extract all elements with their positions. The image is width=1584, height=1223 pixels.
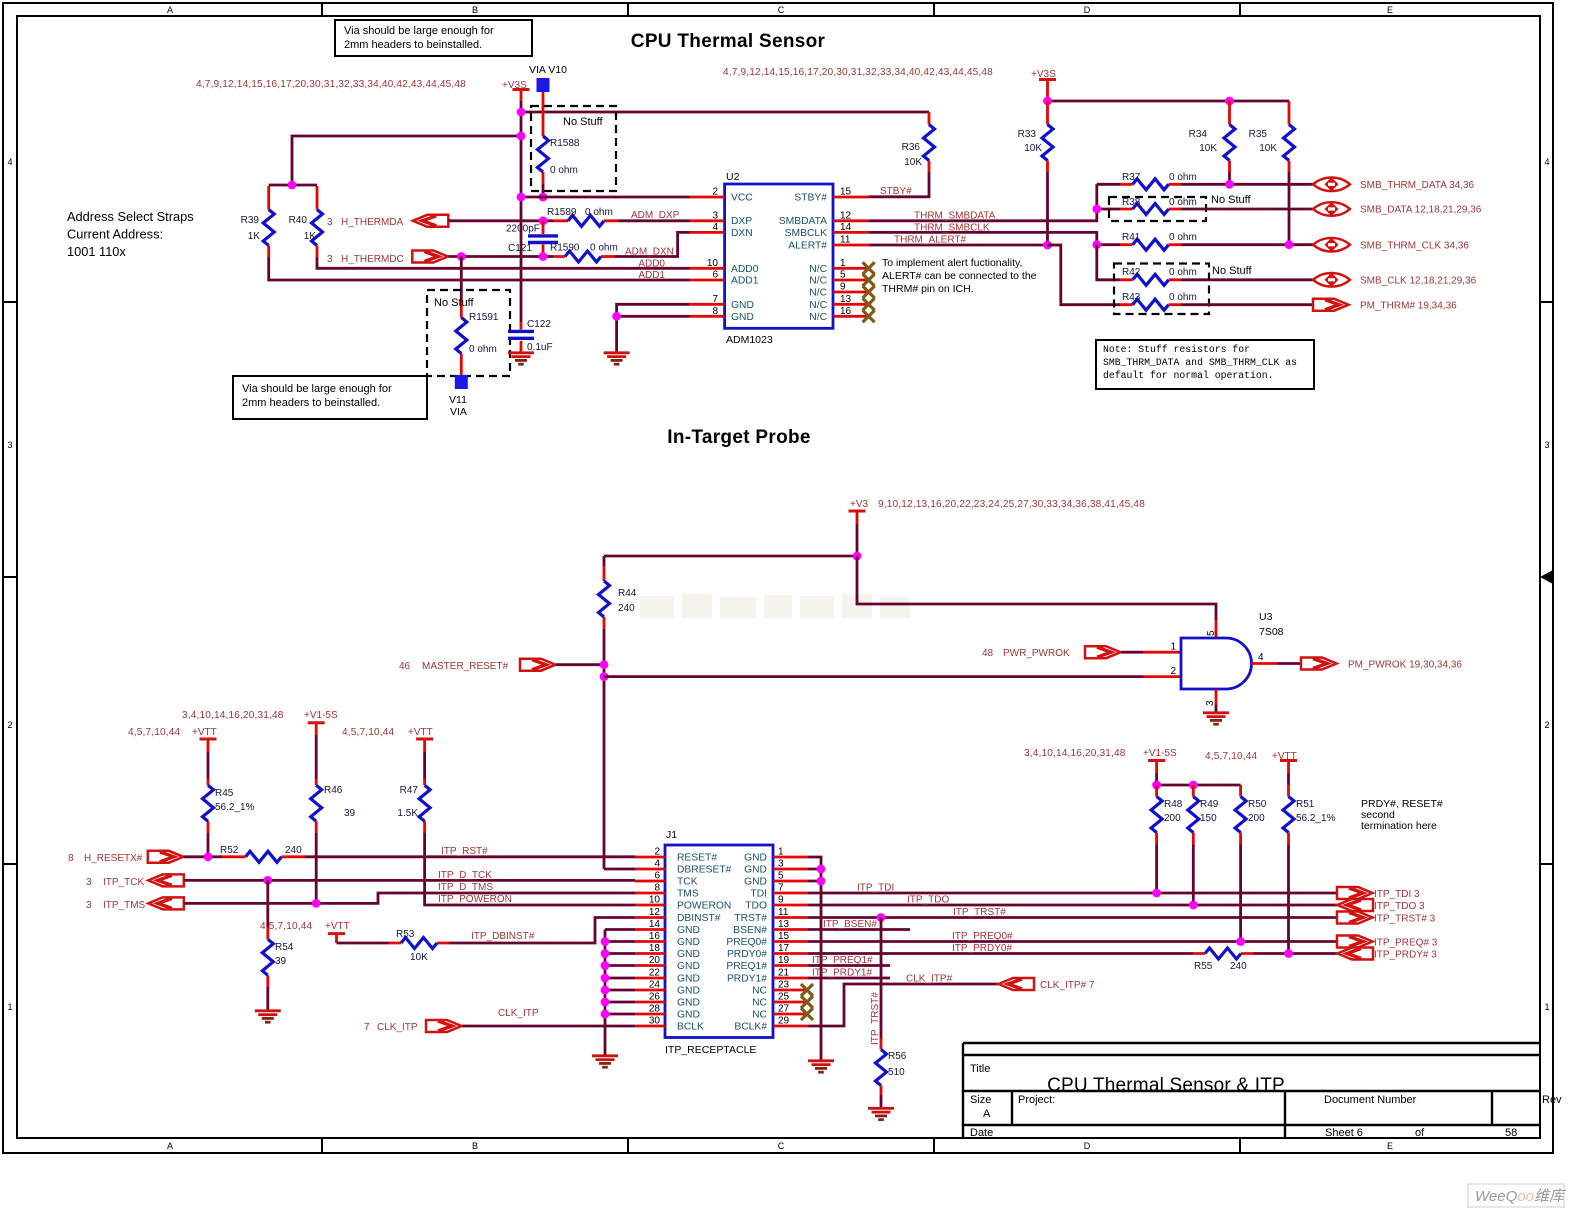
wire PM_PWROK [1277, 662, 1301, 665]
svg-text:10: 10 [707, 258, 719, 269]
resistor R34 10K [1189, 101, 1235, 184]
svg-text:0 ohm: 0 ohm [590, 243, 618, 254]
via V11 [449, 375, 468, 418]
wire THRM_ALERT# net [869, 244, 1061, 247]
wire ALERT to PM_THRM [1048, 245, 1121, 305]
svg-text:ALERT#: ALERT# [788, 240, 827, 251]
node PWR_PWROK [982, 646, 1121, 659]
svg-text:+V1-5S: +V1-5S [304, 710, 338, 721]
svg-text:C122: C122 [527, 319, 551, 330]
node CLK_ITP [364, 1020, 462, 1033]
svg-text:2: 2 [1170, 666, 1176, 677]
svg-text:ITP_TDO: ITP_TDO [907, 895, 949, 906]
svg-text:ITP_POWERON: ITP_POWERON [438, 894, 512, 905]
svg-text:14: 14 [649, 919, 661, 930]
svg-text:4,7,9,12,14,15,16,17,20,30,31,: 4,7,9,12,14,15,16,17,20,30,31,32,33,34,4… [723, 67, 993, 78]
resistor R35 10K [1249, 101, 1295, 245]
svg-text:5: 5 [1206, 630, 1217, 636]
svg-text:ITP_TRST#: ITP_TRST# [953, 907, 1006, 918]
svg-text:56.2_1%: 56.2_1% [215, 802, 255, 813]
ground under C122 [508, 353, 534, 364]
wire +V3 to U3 pin5 [857, 556, 1216, 620]
wire VCC net [521, 196, 690, 199]
svg-text:R52: R52 [220, 845, 239, 856]
svg-text:ADD1: ADD1 [638, 270, 665, 281]
svg-text:BCLK#: BCLK# [734, 1022, 767, 1033]
svg-text:E: E [1387, 1141, 1393, 1151]
svg-text:PRDY0#: PRDY0# [727, 949, 767, 960]
svg-text:26: 26 [649, 992, 661, 1003]
svg-text:1K: 1K [248, 231, 261, 242]
svg-text:SMB_CLK 12,18,21,29,36: SMB_CLK 12,18,21,29,36 [1360, 276, 1477, 287]
svg-text:Document Number: Document Number [1324, 1094, 1417, 1106]
svg-text:R54: R54 [275, 942, 294, 953]
svg-text:2200pF: 2200pF [506, 224, 540, 235]
svg-text:R1588: R1588 [550, 138, 580, 149]
wire ITP_PRDY0# + resistor R55 240 [808, 948, 1337, 972]
svg-text:48: 48 [982, 648, 994, 659]
resistor R43 0 ohm (no stuff) [1120, 292, 1197, 310]
svg-text:+VTT: +VTT [325, 921, 350, 932]
svg-text:6: 6 [712, 270, 718, 281]
svg-text:termination here: termination here [1361, 820, 1437, 832]
svg-text:SMB_THRM_DATA and SMB_THRM_CLK: SMB_THRM_DATA and SMB_THRM_CLK as [1103, 357, 1297, 368]
wire R39 R40 top bar [269, 184, 317, 187]
svg-text:DBRESET#: DBRESET# [677, 865, 732, 876]
right border arrow [1540, 570, 1553, 584]
svg-text:ADD0: ADD0 [731, 264, 759, 275]
svg-text:200: 200 [1164, 813, 1181, 824]
svg-text:GND: GND [677, 949, 700, 960]
svg-text:DXP: DXP [731, 216, 752, 227]
svg-text:56.2_1%: 56.2_1% [1296, 813, 1336, 824]
svg-text:8: 8 [68, 853, 74, 864]
svg-text:GND: GND [731, 300, 754, 311]
wire ITP_PRDY1# net [808, 977, 890, 980]
svg-text:4,5,7,10,44: 4,5,7,10,44 [342, 727, 394, 738]
wire ITP_TDO net [808, 904, 1337, 907]
power +VTT (R45) [192, 727, 217, 779]
power +V3S left [502, 80, 530, 101]
svg-text:No Stuff: No Stuff [434, 297, 474, 309]
resistor R50 200 [1235, 785, 1267, 942]
wire R42 branch [1097, 245, 1120, 280]
svg-text:28: 28 [649, 1004, 661, 1015]
ground under U3 [1203, 713, 1229, 724]
svg-text:39: 39 [275, 956, 287, 967]
svg-text:22: 22 [649, 968, 661, 979]
svg-text:GND: GND [677, 998, 700, 1009]
svg-text:240: 240 [618, 603, 635, 614]
svg-text:default for normal operation.: default for normal operation. [1103, 370, 1274, 381]
resistor R51 56.2_1% [1283, 785, 1336, 954]
svg-text:R39: R39 [241, 215, 260, 226]
svg-text:3: 3 [327, 254, 333, 265]
svg-text:ITP_TMS: ITP_TMS [103, 900, 146, 911]
svg-text:THRM_SMBCLK: THRM_SMBCLK [914, 223, 990, 234]
svg-text:15: 15 [778, 931, 790, 942]
svg-text:150: 150 [1200, 813, 1217, 824]
svg-text:3: 3 [86, 900, 92, 911]
wire +V3 rail left [604, 555, 857, 558]
svg-text:VCC: VCC [731, 193, 753, 204]
node H_THERMDA [327, 215, 448, 228]
junction [517, 132, 526, 141]
svg-text:Date: Date [970, 1127, 993, 1139]
junctions J1 left GND bus [601, 937, 610, 1018]
svg-text:21: 21 [778, 968, 790, 979]
svg-text:No Stuff: No Stuff [1211, 194, 1251, 206]
watermark center faint [640, 594, 910, 618]
svg-text:R34: R34 [1189, 129, 1208, 140]
svg-text:GND: GND [677, 937, 700, 948]
svg-text:R38: R38 [1122, 197, 1141, 208]
svg-text:10K: 10K [1199, 143, 1217, 154]
wire ITP_TDI net [808, 892, 1337, 895]
svg-text:R51: R51 [1296, 799, 1315, 810]
svg-text:R36: R36 [902, 142, 921, 153]
svg-text:U3: U3 [1259, 611, 1273, 623]
svg-text:R50: R50 [1248, 799, 1267, 810]
resistor R47 1.5K [397, 779, 635, 905]
svg-text:B: B [472, 5, 478, 15]
svg-text:R43: R43 [1122, 292, 1141, 303]
power +VTT right [1272, 751, 1297, 785]
svg-text:DXN: DXN [731, 228, 753, 239]
svg-text:R40: R40 [289, 215, 308, 226]
svg-text:ITP_TRST# 3: ITP_TRST# 3 [1374, 914, 1436, 925]
svg-text:Size: Size [970, 1094, 991, 1106]
junction [1225, 97, 1234, 106]
svg-text:+V3: +V3 [850, 499, 869, 510]
junction [1043, 97, 1052, 106]
svg-text:2mm headers to beinstalled.: 2mm headers to beinstalled. [242, 397, 380, 409]
resistor R39 1K [241, 186, 275, 257]
node MASTER_RESET# [399, 659, 556, 672]
row ticks right [1540, 302, 1553, 864]
resistor R52 240 [220, 845, 305, 862]
svg-text:R42: R42 [1122, 267, 1141, 278]
resistor R48 200 [1151, 785, 1183, 893]
svg-text:8: 8 [654, 883, 660, 894]
svg-text:D: D [1084, 5, 1091, 15]
svg-text:C121: C121 [508, 243, 532, 254]
svg-text:DBINST#: DBINST# [677, 913, 721, 924]
svg-text:4,7,9,12,14,15,16,17,20,30,31,: 4,7,9,12,14,15,16,17,20,30,31,32,33,34,4… [196, 79, 466, 90]
svg-text:3: 3 [86, 877, 92, 888]
svg-text:TCK: TCK [677, 877, 698, 888]
svg-text:R33: R33 [1018, 129, 1037, 140]
power +V1-5S right [1143, 748, 1177, 785]
port PM_THRM# [1313, 299, 1349, 311]
svg-text:2: 2 [654, 847, 660, 858]
svg-text:STBY#: STBY# [794, 193, 827, 204]
junction [288, 181, 297, 190]
svg-text:NC: NC [752, 986, 767, 997]
svg-text:16: 16 [649, 931, 661, 942]
svg-text:1: 1 [840, 258, 846, 269]
svg-text:9: 9 [840, 282, 846, 293]
junction [263, 876, 272, 885]
svg-text:SMBDATA: SMBDATA [779, 216, 827, 227]
resistor R1591 0 ohm (no stuff) [456, 257, 499, 376]
svg-text:ITP_DBINST#: ITP_DBINST# [471, 931, 535, 942]
svg-text:R1590: R1590 [550, 243, 580, 254]
svg-text:ITP_D_TMS: ITP_D_TMS [438, 882, 493, 893]
svg-text:R49: R49 [1200, 799, 1219, 810]
J1 pin stubs left [635, 857, 665, 1026]
svg-text:+VTT: +VTT [408, 727, 433, 738]
port CLK_ITP# [999, 978, 1035, 990]
svg-text:25: 25 [778, 992, 790, 1003]
svg-text:7: 7 [778, 883, 784, 894]
junction [1225, 180, 1234, 189]
svg-text:TDO: TDO [745, 901, 767, 912]
port ITP_TDI [1337, 887, 1373, 899]
svg-text:ITP_TRST#: ITP_TRST# [870, 992, 881, 1045]
svg-text:ADM1023: ADM1023 [726, 334, 773, 346]
svg-text:10K: 10K [410, 952, 428, 963]
svg-text:ITP_RECEPTACLE: ITP_RECEPTACLE [665, 1044, 756, 1056]
svg-text:20: 20 [649, 955, 661, 966]
svg-text:Project:: Project: [1018, 1094, 1055, 1106]
svg-text:THRM_SMBDATA: THRM_SMBDATA [914, 211, 996, 222]
wire U2 GND pins to ground [617, 304, 690, 351]
svg-text:29: 29 [778, 1016, 790, 1027]
svg-text:0 ohm: 0 ohm [1169, 267, 1197, 278]
power +VTT (R47) [408, 727, 433, 779]
svg-text:23: 23 [778, 980, 790, 991]
svg-text:R45: R45 [215, 788, 234, 799]
svg-text:11: 11 [778, 907, 789, 918]
column ticks top [322, 3, 1240, 16]
svg-text:1K: 1K [304, 231, 317, 242]
svg-text:12: 12 [649, 907, 661, 918]
svg-text:ITP_TDO 3: ITP_TDO 3 [1374, 901, 1425, 912]
power +V3S right [1031, 69, 1056, 101]
resistor R33 10K [1018, 101, 1053, 245]
svg-text:30: 30 [649, 1016, 661, 1027]
svg-text:GND: GND [744, 853, 767, 864]
svg-text:Address Select Straps: Address Select Straps [67, 209, 194, 224]
svg-text:A: A [983, 1108, 991, 1120]
svg-text:ITP_TCK: ITP_TCK [103, 877, 144, 888]
svg-text:9: 9 [778, 895, 784, 906]
wire SMB_CLK net [1181, 278, 1313, 281]
svg-text:BCLK: BCLK [677, 1022, 704, 1033]
wire J1 right GND chain [808, 857, 821, 1060]
svg-text:E: E [1387, 5, 1393, 15]
svg-text:240: 240 [1230, 961, 1247, 972]
svg-text:3: 3 [7, 440, 12, 450]
svg-text:GND: GND [677, 974, 700, 985]
wire ADM_DXP to pin 3 [618, 219, 690, 222]
resistor R1589 0 ohm [547, 207, 618, 226]
U2 pin stubs left [690, 197, 725, 316]
wire ITP_TRST# net [808, 916, 1337, 919]
wire ITP_RST# net [305, 855, 635, 858]
svg-text:8: 8 [712, 306, 718, 317]
connector J1 ITP_RECEPTACLE [665, 829, 773, 1056]
wire to U3 pin 2 [604, 675, 1143, 678]
svg-text:PM_THRM# 19,34,36: PM_THRM# 19,34,36 [1360, 300, 1457, 311]
svg-text:39: 39 [344, 808, 356, 819]
power +VTT (R53) [325, 921, 350, 943]
svg-text:9,10,12,13,16,20,22,23,24,25,2: 9,10,12,13,16,20,22,23,24,25,27,30,33,34… [878, 499, 1145, 510]
wire THRM_SMBCLK net [869, 232, 1097, 244]
svg-text:CLK_ITP#: CLK_ITP# [906, 974, 953, 985]
row ticks left [3, 302, 17, 864]
resistor R1588 0 ohm (no stuff) [538, 92, 580, 197]
resistor R45 56.2_1% [203, 779, 255, 857]
wire +V3S rail [1048, 100, 1290, 103]
svg-text:PRDY1#: PRDY1# [727, 974, 767, 985]
wire ITP_D_TCK net [184, 879, 635, 882]
svg-text:R47: R47 [400, 785, 419, 796]
junction [853, 552, 862, 561]
svg-text:3: 3 [778, 859, 784, 870]
svg-text:ITP_RST#: ITP_RST# [441, 846, 488, 857]
svg-text:PM_PWROK 19,30,34,36: PM_PWROK 19,30,34,36 [1348, 660, 1462, 671]
svg-text:24: 24 [649, 980, 661, 991]
resistor R1590 0 ohm [550, 243, 618, 263]
svg-text:GND: GND [677, 961, 700, 972]
svg-text:ALERT# can be connected to the: ALERT# can be connected to the [882, 270, 1037, 282]
resistor R54 39 [262, 880, 293, 1009]
svg-text:WeeQoo维库: WeeQoo维库 [1475, 1188, 1567, 1205]
wire THRM_SMBDATA net [869, 184, 1097, 221]
svg-text:16: 16 [840, 306, 852, 317]
svg-text:6: 6 [654, 871, 660, 882]
svg-text:12: 12 [840, 210, 852, 221]
svg-text:D: D [1084, 1141, 1091, 1151]
svg-text:N/C: N/C [809, 300, 827, 311]
svg-text:+VTT: +VTT [192, 727, 217, 738]
svg-text:510: 510 [888, 1067, 905, 1078]
port SMB_THRM_DATA [1313, 177, 1350, 191]
IC U2 ADM1023 [725, 171, 833, 346]
svg-text:3,4,10,14,16,20,31,48: 3,4,10,14,16,20,31,48 [182, 710, 284, 721]
junction [539, 252, 548, 261]
svg-text:THRM# pin on ICH.: THRM# pin on ICH. [882, 283, 974, 295]
port SMB_DATA [1313, 202, 1350, 216]
junction [204, 852, 213, 861]
svg-text:13: 13 [778, 919, 790, 930]
svg-text:NC: NC [752, 998, 767, 1009]
svg-text:POWERON: POWERON [677, 901, 731, 912]
junction [539, 216, 548, 225]
svg-text:J1: J1 [666, 829, 677, 841]
junction [600, 672, 609, 681]
svg-text:THRM_ALERT#: THRM_ALERT# [894, 235, 966, 246]
port ITP_PREQ# [1337, 936, 1373, 948]
svg-text:ITP_PREQ# 3: ITP_PREQ# 3 [1374, 938, 1438, 949]
ground under R56 [868, 1108, 894, 1119]
wire pullup rail [1157, 784, 1241, 787]
junction [1285, 240, 1294, 249]
svg-text:240: 240 [285, 845, 302, 856]
svg-text:CPU Thermal Sensor: CPU Thermal Sensor [631, 31, 826, 52]
svg-text:C: C [778, 5, 785, 15]
wire ITP_BSEN# net [808, 928, 910, 931]
junctions [817, 865, 826, 874]
svg-text:R48: R48 [1164, 799, 1183, 810]
column ticks bottom [322, 1138, 1240, 1153]
svg-text:ITP_BSEN#: ITP_BSEN# [823, 919, 877, 930]
svg-text:46: 46 [399, 661, 411, 672]
wire J1 left GND bus [605, 930, 635, 1055]
svg-text:0 ohm: 0 ohm [1169, 232, 1197, 243]
wire PWR_PWROK to pin1 [1121, 651, 1143, 654]
wire to R39 R40 bar [292, 136, 521, 185]
svg-text:R37: R37 [1122, 172, 1141, 183]
svg-text:VIA V10: VIA V10 [529, 64, 567, 76]
svg-text:TRST#: TRST# [734, 913, 767, 924]
wire H_THERMDA / ADM_DXP [448, 219, 553, 222]
svg-text:0 ohm: 0 ohm [585, 207, 613, 218]
wire PM_THRM# net [1181, 303, 1313, 306]
svg-text:1: 1 [7, 1002, 12, 1012]
svg-text:R56: R56 [888, 1051, 907, 1062]
port ITP_TDO [1338, 899, 1374, 911]
svg-text:2mm headers to beinstalled.: 2mm headers to beinstalled. [344, 39, 482, 51]
svg-text:GND: GND [744, 877, 767, 888]
no stuff box R1591 [427, 290, 510, 376]
svg-text:N/C: N/C [809, 288, 827, 299]
ground under J1 left [592, 1056, 618, 1067]
svg-text:1: 1 [1544, 1002, 1549, 1012]
svg-text:1: 1 [778, 847, 784, 858]
resistor R44 240 [599, 556, 637, 869]
svg-text:SMB_THRM_DATA 34,36: SMB_THRM_DATA 34,36 [1360, 180, 1475, 191]
svg-text:STBY#: STBY# [880, 186, 912, 197]
capacitor C121 2200pF [506, 221, 558, 257]
J1 pin stubs right [773, 857, 808, 1026]
svg-text:R46: R46 [324, 785, 343, 796]
svg-text:GND: GND [677, 925, 700, 936]
svg-text:200: 200 [1248, 813, 1265, 824]
svg-text:0 ohm: 0 ohm [1169, 197, 1197, 208]
svg-text:R44: R44 [618, 588, 637, 599]
junction [1189, 901, 1198, 910]
svg-text:R1591: R1591 [469, 312, 499, 323]
svg-text:To implement alert fuctionalit: To implement alert fuctionality, [882, 257, 1022, 269]
svg-text:3,4,10,14,16,20,31,48: 3,4,10,14,16,20,31,48 [1024, 748, 1126, 759]
no-connect X pins U2 [863, 262, 875, 274]
wire H_THERMDC / ADM_DXN [448, 255, 553, 258]
junction [1152, 889, 1161, 898]
svg-text:H_THERMDC: H_THERMDC [341, 254, 404, 265]
svg-text:0.1uF: 0.1uF [527, 342, 553, 353]
svg-text:N/C: N/C [809, 264, 827, 275]
ground under R54 [255, 1011, 281, 1022]
svg-text:PREQ1#: PREQ1# [726, 961, 767, 972]
svg-text:PWR_PWROK: PWR_PWROK [1003, 648, 1070, 659]
port PM_PWROK [1301, 658, 1337, 670]
svg-text:2: 2 [1544, 720, 1549, 730]
wire MASTER_RESET# [556, 663, 604, 666]
title block [963, 1043, 1540, 1138]
resistor R37 0 ohm [1097, 172, 1197, 190]
svg-text:SMB_DATA 12,18,21,29,36: SMB_DATA 12,18,21,29,36 [1360, 205, 1482, 216]
svg-text:Note: Stuff resistors for: Note: Stuff resistors for [1103, 344, 1250, 355]
svg-text:3: 3 [1544, 440, 1549, 450]
svg-text:10K: 10K [1024, 143, 1042, 154]
svg-text:No Stuff: No Stuff [563, 116, 603, 128]
annotation box: via note top [335, 20, 532, 56]
svg-text:GND: GND [744, 865, 767, 876]
power +V3 [849, 499, 869, 556]
